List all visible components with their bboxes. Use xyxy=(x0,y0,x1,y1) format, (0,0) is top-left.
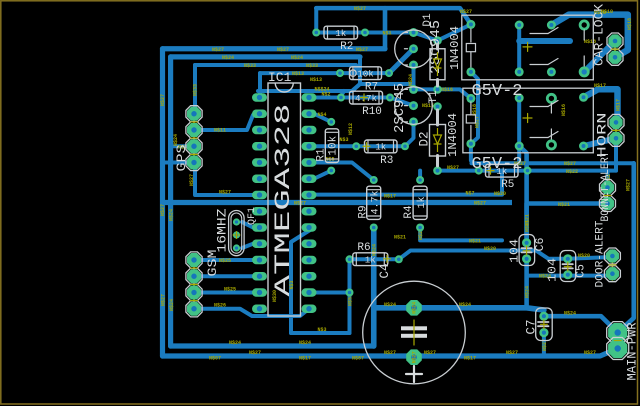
svg-text:N$27: N$27 xyxy=(354,6,366,12)
wire N$7 IC pin22 thin horizontal xyxy=(314,171,502,195)
diode D1 body xyxy=(436,44,439,49)
wire N$4 IC pin27 to R1 top xyxy=(314,114,331,122)
resistor R3 body 1k xyxy=(365,140,398,153)
wire N$25 GSM pad2 to IC pin12 xyxy=(194,274,253,278)
svg-text:N$27: N$27 xyxy=(564,161,576,167)
svg-text:GSM: GSM xyxy=(206,250,220,277)
wire N$24 C4 column vertical xyxy=(371,228,377,347)
wire N$14 D1 to relay K1 coil xyxy=(438,24,471,40)
wire N$20 R4 bottom xyxy=(420,228,502,241)
svg-text:N$24: N$24 xyxy=(229,340,241,346)
svg-text:N$25: N$25 xyxy=(219,258,231,264)
svg-text:N$27: N$27 xyxy=(625,179,631,191)
wire N$2 IC pin28 to R10 left xyxy=(314,96,341,100)
wire T1 emitter to R3 right xyxy=(405,122,414,146)
svg-text:R10: R10 xyxy=(362,106,382,118)
svg-text:N$24: N$24 xyxy=(459,302,471,308)
junction cross GPS xyxy=(191,121,198,123)
wire N$27 GPS pad4 down to IC pin7 xyxy=(195,163,253,196)
wire N$24 bottom horizontal to C4 column xyxy=(171,343,374,348)
svg-text:1k: 1k xyxy=(416,196,428,208)
svg-text:R2: R2 xyxy=(340,41,353,53)
wire XTAL1 crystal to IC pin9 xyxy=(242,222,253,228)
relay K1 cross xyxy=(523,46,532,48)
svg-text:DOOR-ALERT: DOOR-ALERT xyxy=(595,220,607,287)
svg-text:N$27: N$27 xyxy=(474,201,486,207)
resistor R1 body 10k vertical xyxy=(325,129,338,163)
svg-text:N$10: N$10 xyxy=(601,9,613,15)
wire through R3 body xyxy=(358,144,403,148)
relay K2 outline xyxy=(463,88,593,153)
svg-text:N$21: N$21 xyxy=(394,234,406,240)
svg-text:N$27: N$27 xyxy=(506,350,518,356)
wire N$13 horizontal to R7 xyxy=(260,71,340,75)
capacitor C4 plus mark xyxy=(406,373,422,375)
wire N$21 R4 top stub xyxy=(418,171,422,180)
svg-text:N$27: N$27 xyxy=(160,204,166,216)
wire N$27 bottom long horizontal xyxy=(163,349,618,357)
svg-text:N$24: N$24 xyxy=(291,55,303,61)
svg-text:16MHZ: 16MHZ xyxy=(215,208,230,252)
svg-text:N$13: N$13 xyxy=(292,71,304,77)
svg-text:C6: C6 xyxy=(534,238,547,252)
transistor T1 pads xyxy=(409,85,418,94)
svg-text:N$4: N$4 xyxy=(317,112,326,118)
svg-text:N$27: N$27 xyxy=(584,350,596,356)
svg-text:N$27: N$27 xyxy=(249,350,261,356)
capacitor C5 pads xyxy=(563,254,572,263)
resistor R7 body 10k xyxy=(350,67,382,80)
svg-text:N$33: N$33 xyxy=(193,84,199,96)
svg-text:GPS: GPS xyxy=(175,145,189,172)
junction cross CAR-LOCK xyxy=(612,48,619,50)
svg-text:N$1: N$1 xyxy=(382,31,391,37)
wire N$16 T1 collector to D2 top xyxy=(414,87,438,91)
junction cross R6 xyxy=(384,258,391,260)
resistor R2 body 1k xyxy=(324,26,358,39)
resistor R5 pads xyxy=(475,167,483,175)
resistor R4 body 1k vertical xyxy=(413,186,427,219)
wire N$18 relay K1 inner horizontal xyxy=(519,38,570,44)
svg-text:N$11: N$11 xyxy=(214,128,226,134)
wire R2 left pad drop xyxy=(314,8,318,32)
svg-text:D1: D1 xyxy=(422,13,434,27)
svg-text:N$21: N$21 xyxy=(558,202,570,208)
crystal QF1 pads xyxy=(233,218,240,225)
svg-text:N$17: N$17 xyxy=(594,83,606,89)
connector CAR-LOCK pads xyxy=(614,35,616,63)
svg-text:N$27: N$27 xyxy=(277,47,289,53)
relay K2 coil symbol xyxy=(470,102,472,115)
transistor T2 outline xyxy=(395,30,433,68)
wire N$3 bottom horizontal xyxy=(291,331,350,335)
junction cross GSM xyxy=(191,267,198,269)
resistor R7 pads xyxy=(336,69,344,77)
resistor R10 body 4.7k xyxy=(350,91,383,104)
svg-text:N$24: N$24 xyxy=(169,299,175,311)
svg-text:N$33: N$33 xyxy=(306,63,318,69)
svg-text:N$17: N$17 xyxy=(464,356,476,362)
transistor T2 pads xyxy=(409,28,418,37)
junction cross MAIN-PWR xyxy=(614,340,621,342)
svg-text:N$17: N$17 xyxy=(299,356,311,362)
svg-text:N$25: N$25 xyxy=(224,287,236,293)
wire N$26 GSM pad4 under IC to pin15 xyxy=(194,309,309,316)
wire XTAL2 crystal to IC pin10 xyxy=(242,244,253,248)
svg-text:1N4004: 1N4004 xyxy=(448,26,462,70)
wire N$25 GSM pad1 to IC pin11 xyxy=(194,258,253,262)
wire N$5 IC pin24 to R9 top xyxy=(314,163,374,181)
svg-text:N$16: N$16 xyxy=(441,87,453,93)
wire N$1 R2 to T2 xyxy=(365,31,414,35)
svg-text:N$21: N$21 xyxy=(469,238,481,244)
junction cross BONNET xyxy=(604,195,611,197)
junction cross R10 xyxy=(361,97,368,99)
svg-text:BONNET-ALERT: BONNET-ALERT xyxy=(600,151,612,221)
svg-text:N$22: N$22 xyxy=(566,169,578,175)
svg-text:N$20: N$20 xyxy=(578,253,590,259)
wire N$24 C7 to MAIN-PWR xyxy=(544,316,618,332)
junction cross DOOR xyxy=(609,264,616,266)
svg-text:N$27: N$27 xyxy=(460,9,472,15)
junction cross C6 xyxy=(523,250,530,252)
resistor R4 pads xyxy=(416,176,424,184)
svg-text:N$24: N$24 xyxy=(222,55,234,61)
svg-text:HORN: HORN xyxy=(596,113,610,158)
wire K2 contact drop to C6 column xyxy=(519,146,526,243)
svg-text:N$24: N$24 xyxy=(412,302,418,314)
svg-text:C7: C7 xyxy=(525,319,539,334)
wire N$3 IC pin16 to via xyxy=(314,291,350,295)
wire N$22 riser to HORN pad2 xyxy=(614,138,618,170)
diode D2 pads xyxy=(433,102,442,111)
connector GPS pads xyxy=(193,108,195,168)
wire N$22 D2 bottom to R5 xyxy=(438,169,479,173)
svg-text:N$20: N$20 xyxy=(484,246,496,252)
wire N$24 C5 bottom to DOOR-ALERT pad xyxy=(568,274,613,276)
svg-text:N$24: N$24 xyxy=(169,209,175,221)
svg-text:1k: 1k xyxy=(365,255,377,266)
svg-text:N$27: N$27 xyxy=(356,47,368,53)
svg-text:1N4004: 1N4004 xyxy=(446,113,460,157)
wire N$15 R10 right to T1 base xyxy=(390,98,414,106)
wire through R6 body xyxy=(352,257,397,261)
svg-text:N$3: N$3 xyxy=(317,327,326,333)
wire N$24 horizontal to R10 left pad xyxy=(258,84,414,91)
svg-text:N$7: N$7 xyxy=(465,190,474,196)
resistor R9 pads xyxy=(370,176,378,184)
svg-text:N$16: N$16 xyxy=(561,104,567,116)
wire N$27 riser to top rail xyxy=(316,8,385,49)
svg-text:N$20: N$20 xyxy=(494,191,506,197)
connector DOOR-ALERT pads xyxy=(611,250,613,280)
crystal QF1 outline xyxy=(229,211,245,256)
wire through R10 body xyxy=(343,96,388,100)
wire N$10 relay K1 contact to CAR-LOCK pad2 xyxy=(551,15,627,58)
capacitor C7 outline xyxy=(536,308,553,341)
wire N$27 right edge vertical xyxy=(618,163,634,332)
resistor R6 pads xyxy=(346,255,354,263)
svg-text:N$27: N$27 xyxy=(384,350,396,356)
wire N$22 R5 right horizontal xyxy=(528,169,617,173)
junction cross HORN xyxy=(613,129,620,131)
svg-text:N$21: N$21 xyxy=(525,214,531,226)
wire N$13 vertical to IC pin1 xyxy=(258,73,262,95)
svg-text:10k: 10k xyxy=(357,69,374,80)
svg-text:1k: 1k xyxy=(375,142,387,153)
connector GSM pads xyxy=(193,254,195,314)
svg-text:N$27: N$27 xyxy=(219,190,231,196)
relay K1 coil symbol xyxy=(470,29,472,42)
wire N$27 right horizontal xyxy=(472,161,634,165)
junction cross R5 xyxy=(487,170,494,172)
connector MAIN-PWR pads xyxy=(617,326,619,355)
resistor R10 pads xyxy=(337,94,345,102)
wire N$24 C6 bottom vertical xyxy=(524,259,529,308)
wire N$27 relay K1 coil- vertical xyxy=(471,72,478,163)
svg-text:N$87: N$87 xyxy=(352,356,364,362)
svg-text:N$24: N$24 xyxy=(564,310,576,316)
wire N$24 top horizontal xyxy=(171,54,360,59)
svg-text:4.7k: 4.7k xyxy=(370,190,382,214)
junction cross C5 xyxy=(564,266,571,268)
svg-text:N$27: N$27 xyxy=(161,294,167,306)
wire N$24 GPS pad3 stub xyxy=(171,144,195,148)
svg-text:N$24: N$24 xyxy=(524,286,530,298)
resistor R5 body 1k xyxy=(486,164,519,177)
resistor R3 pads xyxy=(352,142,360,150)
svg-text:G5V-2: G5V-2 xyxy=(471,155,522,174)
relay K2 pads xyxy=(466,94,475,103)
via N$3 xyxy=(346,289,354,297)
resistor R1 pads xyxy=(327,118,335,126)
svg-text:N$27: N$27 xyxy=(189,174,195,186)
svg-text:N$07: N$07 xyxy=(209,356,221,362)
wire N$24 into R10 pad xyxy=(341,91,344,96)
wire N$25 GSM pad3 to IC pin13 xyxy=(194,291,253,295)
wire N$24 horizontal through C4 top pad xyxy=(374,308,544,310)
capacitor C5 outline xyxy=(560,251,576,282)
wire N$24 left vertical xyxy=(168,57,173,346)
capacitor C4 plates xyxy=(401,326,427,330)
svg-text:N$26: N$26 xyxy=(214,303,226,309)
svg-text:N$24: N$24 xyxy=(384,302,396,308)
resistor R6 body 1k xyxy=(353,253,388,266)
resistor R9 body 4.7k vertical xyxy=(367,186,381,219)
svg-text:N$27: N$27 xyxy=(447,165,459,171)
relay K2 cross xyxy=(523,117,532,119)
capacitor C6 pads xyxy=(522,238,531,247)
relay K1 pads xyxy=(466,20,475,29)
relay K1 outline xyxy=(462,15,594,80)
svg-text:QF1: QF1 xyxy=(247,207,258,225)
wire through R7 body xyxy=(342,71,387,75)
wire relay K1 contact column xyxy=(517,25,521,72)
diode D2 body xyxy=(436,110,439,125)
svg-text:G5V-2: G5V-2 xyxy=(471,82,522,101)
wire N$27 top horizontal run xyxy=(163,46,386,51)
wire N$27 left vertical xyxy=(160,49,165,356)
wire N$33 GPS pad1 vertical xyxy=(193,65,197,114)
svg-text:N$18: N$18 xyxy=(627,18,633,30)
wire through R2 body xyxy=(318,31,363,35)
svg-text:N$24: N$24 xyxy=(299,340,311,346)
wire N$20 R6 right diagonal run xyxy=(399,251,568,260)
wire N$17 relay K2 contact to HORN pad1 xyxy=(584,89,618,122)
svg-text:N$12: N$12 xyxy=(348,123,354,135)
wire relay K2 contact column xyxy=(517,98,521,163)
svg-text:N$2: N$2 xyxy=(321,92,330,98)
resistor R2 pads xyxy=(312,29,320,37)
junction cross R3 xyxy=(363,145,370,147)
svg-text:N$3: N$3 xyxy=(339,137,348,143)
svg-text:IC1: IC1 xyxy=(268,70,292,85)
svg-text:1k: 1k xyxy=(335,28,347,39)
svg-text:N$27: N$27 xyxy=(212,47,224,53)
svg-text:N$17: N$17 xyxy=(384,193,396,199)
capacitor C4 pads xyxy=(406,300,422,316)
svg-text:ATMEGA328: ATMEGA328 xyxy=(271,104,296,297)
svg-text:R4: R4 xyxy=(403,205,415,219)
wire N$20 C5 top to DOOR pad1 xyxy=(568,257,613,259)
wire N$33 horizontal xyxy=(195,65,356,71)
svg-text:N$24: N$24 xyxy=(408,74,414,86)
wire N$3 IC pin25 to R3 left xyxy=(314,144,356,148)
capacitor C4 outline circle xyxy=(363,281,466,384)
IC1 outline xyxy=(268,83,301,316)
wire N$13 relay K2 to HORN pad2 xyxy=(584,138,617,146)
svg-text:10k: 10k xyxy=(328,135,340,155)
relay K2 contact symbol xyxy=(530,106,548,108)
IC1 pads xyxy=(252,93,267,101)
wire N$3 R6 left vertical xyxy=(348,259,352,333)
svg-text:N$17: N$17 xyxy=(616,99,622,111)
svg-text:R5: R5 xyxy=(501,179,514,191)
wire N$27 top rail right to relay K1 xyxy=(385,8,471,24)
svg-text:R6: R6 xyxy=(357,242,370,254)
diode D1 pads xyxy=(433,36,442,45)
svg-text:2SC945: 2SC945 xyxy=(393,83,408,133)
wire N$18 relay K1 diagonal to CAR-LOCK pad1 xyxy=(584,41,615,72)
wire N$24 T2 emitter to T1 collector xyxy=(412,65,416,89)
wire N$16 D2/D1 bottom to relay K2 coil xyxy=(438,89,471,98)
capacitor C7 pads xyxy=(539,312,548,321)
relay K1 contact symbol xyxy=(530,33,548,35)
svg-text:R1: R1 xyxy=(316,148,328,162)
svg-text:R3: R3 xyxy=(380,155,393,167)
svg-text:C4: C4 xyxy=(378,263,392,278)
wire N$27 C7 bottom drop xyxy=(542,333,546,356)
svg-text:N$33: N$33 xyxy=(244,63,256,69)
svg-text:4.7k: 4.7k xyxy=(355,93,378,104)
wire N$24 riser to R10 xyxy=(352,57,360,91)
crystal center cross xyxy=(233,234,240,236)
svg-text:C5: C5 xyxy=(575,264,588,278)
svg-text:R9: R9 xyxy=(358,205,370,218)
svg-text:N$13: N$13 xyxy=(310,77,322,83)
svg-text:N$27: N$27 xyxy=(160,94,166,106)
wire N$23 R7 right to T2 base xyxy=(389,49,414,73)
wire N$27 GPS pad4 stub left xyxy=(163,161,196,165)
wire N$11 GPS pad2 to IC pin2 xyxy=(194,115,253,130)
wire N$14 T2 collector to D1 xyxy=(414,33,438,41)
svg-text:T1: T1 xyxy=(428,90,440,104)
junction cross C7 xyxy=(540,323,547,325)
wire N$3 IC inner vertical xyxy=(291,228,314,334)
svg-text:D2: D2 xyxy=(418,131,432,146)
wire N$6 IC pin23 to R1 bottom xyxy=(314,171,331,179)
capacitor C6 outline xyxy=(519,235,535,266)
svg-text:N$27: N$27 xyxy=(424,350,436,356)
wire through R5 body xyxy=(481,169,526,173)
transistor T1 outline xyxy=(395,87,433,125)
wire N$21 BONNET pad2 to C6 top xyxy=(527,204,608,243)
svg-text:N$27: N$27 xyxy=(412,351,418,363)
connector BONNET-ALERT pads xyxy=(607,182,609,210)
wire N$27 mid thick horizontal xyxy=(163,200,513,205)
wire N$22 drop to BONNET pad1 xyxy=(606,171,610,188)
connector HORN pads xyxy=(615,116,617,144)
svg-text:104: 104 xyxy=(547,258,560,282)
svg-text:104: 104 xyxy=(509,239,522,263)
wire N$24 C6 to C5 bottom xyxy=(527,274,568,278)
